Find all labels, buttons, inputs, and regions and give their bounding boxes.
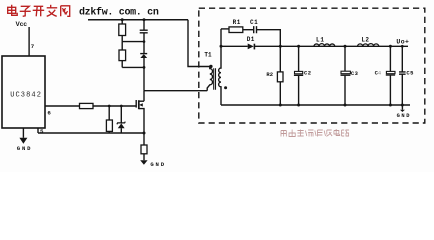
波 bbox=[324, 130, 332, 136]
zener gate clamp bbox=[120, 106, 122, 123]
capacitor C2 bbox=[298, 46, 300, 71]
node gate-zener junction bbox=[120, 105, 123, 108]
capacitor C3 bbox=[344, 46, 346, 71]
svg-text:L1: L1 bbox=[316, 36, 325, 43]
滤 bbox=[315, 130, 323, 137]
开 bbox=[34, 5, 44, 7]
子 bbox=[21, 6, 30, 10]
node secondary top junction bbox=[220, 45, 223, 48]
wire R1C1 branch top bbox=[221, 28, 229, 30]
电 bbox=[334, 129, 340, 136]
svg-text:GND: GND bbox=[150, 161, 165, 168]
svg-text:Vcc: Vcc bbox=[16, 21, 28, 28]
svg-text:T1: T1 bbox=[204, 52, 212, 59]
resistor gate series bbox=[80, 103, 94, 108]
capacitor snubber bbox=[143, 20, 145, 30]
resistor source sense bbox=[143, 133, 145, 145]
svg-text:C5: C5 bbox=[406, 69, 414, 76]
op-amp U1 UC3842 IC box bbox=[2, 56, 45, 128]
svg-text:C3: C3 bbox=[351, 70, 359, 77]
resistor snubber upper bbox=[121, 20, 123, 24]
svg-text:C4: C4 bbox=[375, 69, 382, 76]
inductor L1 bbox=[314, 44, 335, 47]
resistor snubber lower bbox=[121, 42, 123, 50]
node D1 output junction bbox=[279, 45, 282, 48]
wire R1 to C1 bbox=[243, 29, 254, 31]
wire snubber tie lower bbox=[122, 66, 144, 68]
wire pin5 line bbox=[38, 132, 144, 134]
capacitor C1 bbox=[254, 26, 257, 33]
出 bbox=[289, 130, 295, 137]
wire drain drop to mosfet bbox=[143, 91, 145, 102]
resistor R2 bbox=[279, 46, 281, 72]
inductor L2 bbox=[358, 44, 379, 47]
输 bbox=[281, 131, 286, 137]
node rail-cap branch bbox=[143, 18, 146, 21]
ground output bbox=[401, 105, 403, 110]
svg-text:dzkfw. com. cn: dzkfw. com. cn bbox=[79, 6, 159, 18]
transformer T1 secondary winding bbox=[219, 29, 221, 105]
wire resistor to gate bbox=[93, 105, 136, 107]
capacitor C4 bbox=[389, 46, 391, 71]
svg-text:5: 5 bbox=[40, 128, 44, 135]
svg-text:GND: GND bbox=[17, 145, 32, 152]
wire top rail bbox=[88, 19, 188, 21]
node bottom junctions bbox=[279, 104, 282, 107]
node C2 top bbox=[297, 45, 300, 48]
resistor gate pull-down bbox=[108, 106, 110, 120]
node secondary phase dot bbox=[224, 86, 227, 89]
svg-text:7: 7 bbox=[31, 43, 35, 50]
svg-text:6: 6 bbox=[47, 110, 51, 117]
发 bbox=[47, 7, 58, 9]
路 bbox=[342, 130, 350, 136]
svg-text:L2: L2 bbox=[361, 36, 369, 43]
wire secondary to D1 bbox=[221, 45, 248, 47]
transformer T1 primary winding bbox=[207, 67, 212, 91]
ground under IC bbox=[22, 128, 24, 138]
node C5 top bbox=[401, 45, 404, 48]
wire C1 to node bbox=[257, 30, 281, 47]
transformer core bbox=[214, 68, 216, 90]
wire rail drop to primary bbox=[188, 20, 210, 67]
svg-text:C2: C2 bbox=[304, 69, 311, 76]
capacitor C5 bbox=[401, 46, 403, 71]
流 bbox=[305, 130, 313, 137]
node rail-resistor branch bbox=[121, 18, 124, 21]
pin 5 stub bbox=[37, 128, 39, 133]
整 bbox=[297, 130, 303, 137]
ground source bbox=[140, 160, 147, 165]
node gate-R junction bbox=[108, 105, 111, 108]
电 bbox=[8, 7, 16, 13]
wire bottom rail bbox=[221, 104, 410, 106]
svg-text:C1: C1 bbox=[250, 19, 258, 26]
node C3 top bbox=[344, 45, 347, 48]
svg-text:UC3842: UC3842 bbox=[10, 92, 42, 100]
wire drain line to transformer bbox=[144, 90, 207, 92]
svg-text:GND: GND bbox=[397, 113, 412, 119]
dashed box output section bbox=[199, 8, 425, 123]
svg-text:R1: R1 bbox=[233, 19, 241, 26]
node source junction bbox=[143, 132, 146, 135]
svg-text:R2: R2 bbox=[266, 71, 273, 78]
resistor R1 bbox=[229, 27, 243, 33]
watermark 电子开发网 (red, drawn strokes) bbox=[8, 5, 70, 16]
网 bbox=[61, 6, 70, 16]
transistor Q1 mosfet bbox=[135, 100, 137, 108]
diode D1 rectifier bbox=[248, 44, 254, 50]
diode snubber clamp (points up) bbox=[140, 53, 147, 55]
node primary phase dot bbox=[209, 65, 212, 68]
caption 输出整流滤波电路 (faint red, drawn strokes) bbox=[281, 129, 349, 137]
wire snubber tie upper bbox=[122, 41, 144, 43]
svg-text:Uo+: Uo+ bbox=[396, 38, 409, 45]
node C4 top bbox=[389, 45, 392, 48]
wire Vcc to pin7 bbox=[28, 27, 30, 56]
wire output rail bbox=[254, 45, 408, 47]
svg-text:D1: D1 bbox=[247, 36, 255, 43]
wire pin6 to gate resistor bbox=[45, 105, 80, 107]
